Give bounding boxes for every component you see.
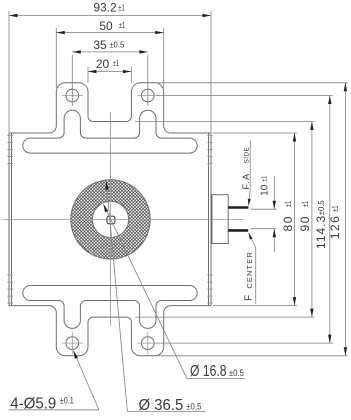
svg-text:Ø 16.8: Ø 16.8	[190, 363, 227, 380]
svg-text:126: 126	[328, 215, 342, 240]
svg-text:±1: ±1	[118, 4, 125, 13]
svg-text:±0.5: ±0.5	[317, 200, 326, 216]
svg-text:±0.5: ±0.5	[229, 368, 244, 378]
svg-text:±1: ±1	[261, 176, 268, 182]
svg-text:20: 20	[96, 57, 110, 71]
svg-text:50: 50	[99, 19, 113, 33]
svg-text:SIDE: SIDE	[243, 146, 250, 163]
svg-text:±0.5: ±0.5	[109, 41, 125, 50]
svg-text:90: 90	[298, 215, 312, 231]
svg-text:F.A: F.A	[241, 173, 251, 190]
svg-text:±1: ±1	[119, 21, 126, 30]
svg-text:10: 10	[259, 184, 270, 196]
svg-text:CENTER: CENTER	[245, 251, 254, 288]
svg-text:±1: ±1	[301, 200, 310, 207]
svg-text:80: 80	[281, 215, 295, 231]
svg-text:±1: ±1	[284, 200, 293, 207]
svg-text:±0.5: ±0.5	[186, 401, 201, 411]
svg-text:35: 35	[93, 38, 107, 52]
svg-text:F: F	[244, 295, 255, 301]
svg-text:±1: ±1	[331, 205, 340, 212]
svg-text:93.2: 93.2	[93, 0, 117, 14]
svg-text:114.3: 114.3	[314, 215, 328, 249]
svg-text:±1: ±1	[113, 59, 120, 68]
svg-text:±0.1: ±0.1	[60, 395, 74, 405]
